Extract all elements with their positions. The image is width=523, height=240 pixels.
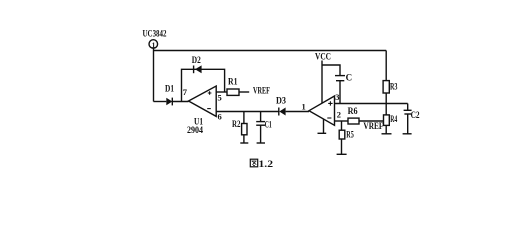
svg-text:C: C bbox=[346, 72, 353, 82]
svg-text:1: 1 bbox=[302, 101, 306, 111]
svg-text:D3: D3 bbox=[276, 95, 286, 105]
svg-text:7: 7 bbox=[183, 87, 188, 97]
svg-text:C1: C1 bbox=[265, 120, 272, 130]
svg-text:VREF: VREF bbox=[253, 86, 270, 96]
svg-text:R6: R6 bbox=[348, 106, 358, 116]
svg-text:R3: R3 bbox=[390, 82, 398, 92]
svg-text:C2: C2 bbox=[411, 110, 420, 120]
svg-text:D2: D2 bbox=[192, 55, 201, 65]
svg-text:R5: R5 bbox=[346, 130, 354, 140]
svg-text:6: 6 bbox=[218, 111, 222, 121]
svg-text:2904: 2904 bbox=[187, 125, 203, 135]
svg-text:1.2: 1.2 bbox=[259, 159, 274, 169]
svg-text:R2: R2 bbox=[232, 119, 241, 129]
svg-text:D1: D1 bbox=[165, 83, 174, 93]
svg-text:5: 5 bbox=[218, 92, 222, 102]
svg-text:R4: R4 bbox=[390, 114, 397, 124]
svg-text:2: 2 bbox=[337, 110, 341, 120]
svg-text:VREF: VREF bbox=[363, 121, 383, 131]
svg-text:3: 3 bbox=[335, 92, 339, 102]
svg-text:VCC: VCC bbox=[315, 52, 331, 62]
svg-text:1: 1 bbox=[152, 40, 156, 49]
svg-text:R1: R1 bbox=[228, 76, 238, 86]
svg-text:UC3842: UC3842 bbox=[143, 29, 167, 39]
